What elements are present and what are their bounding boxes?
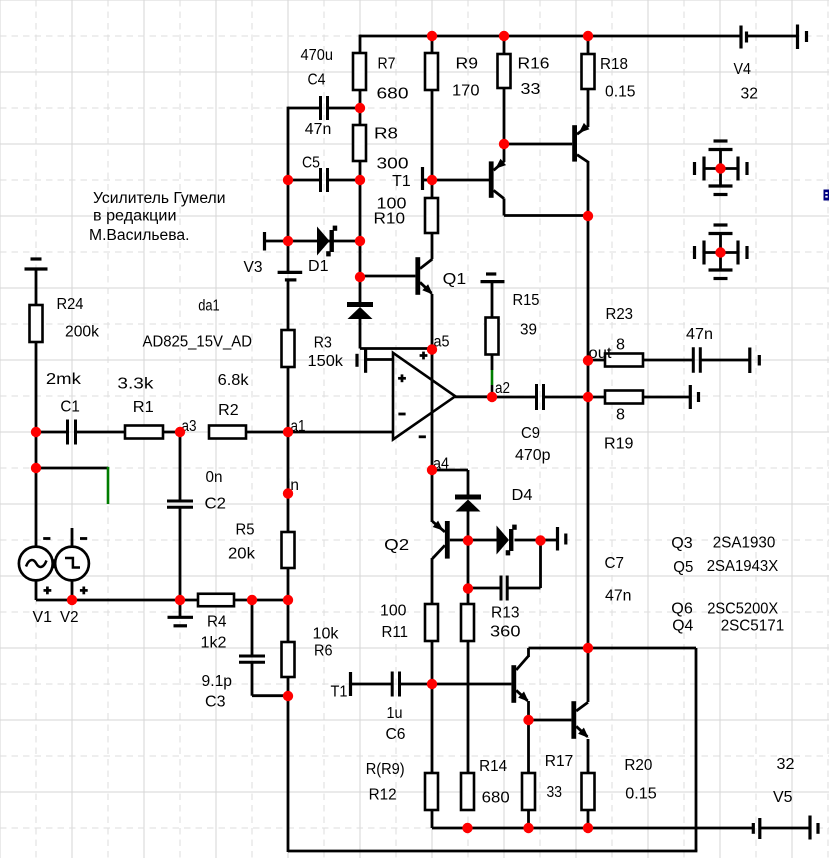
wire node to V1 <box>35 468 38 547</box>
label D1 <box>308 258 329 275</box>
svg-text:2SC5200X: 2SC5200X <box>707 601 779 618</box>
svg-text:D1: D1 <box>308 258 329 275</box>
wire branch to green wire <box>36 467 108 470</box>
svg-text:1k2: 1k2 <box>201 635 227 652</box>
svg-text:C1: C1 <box>60 399 80 416</box>
svg-text:470p: 470p <box>515 447 551 464</box>
wire Q8 base row <box>504 143 572 146</box>
V1 minus marker <box>43 537 50 540</box>
svg-text:32: 32 <box>777 756 795 773</box>
svg-text:T1: T1 <box>331 684 348 701</box>
resistor R19 8 <box>605 391 643 404</box>
wire out row to R23 <box>588 359 605 362</box>
battery V4 cell 1 <box>741 26 747 49</box>
resistor R15 <box>486 318 499 355</box>
wire Q2 base <box>450 539 468 542</box>
svg-text:Q1: Q1 <box>443 271 467 288</box>
value label R20 0.15 <box>624 757 656 803</box>
svg-text:V5: V5 <box>773 789 793 806</box>
wire top supply rail <box>360 35 741 38</box>
svg-text:da1: da1 <box>198 297 220 314</box>
wire op-amp output to a2 <box>455 395 492 398</box>
transistor Q2 pnp mirrored <box>433 521 450 559</box>
V1 plus marker <box>44 587 52 595</box>
battery terminal R19 row <box>690 385 698 409</box>
wire R5 bottom <box>287 568 290 600</box>
terminal at node D1 left <box>263 232 266 251</box>
wire R6 bottom to bottom rail <box>287 696 290 852</box>
svg-text:32: 32 <box>741 86 759 103</box>
svg-text:AD825_15V_AD: AD825_15V_AD <box>143 334 253 351</box>
value label R1 3.3k <box>117 375 153 416</box>
source V2 pulse <box>53 547 89 581</box>
value label R3 150k <box>308 335 344 370</box>
wire R10 to Q1 collector <box>431 233 434 259</box>
diode D2 <box>347 302 373 319</box>
label V5 32 <box>773 756 795 806</box>
svg-text:100: 100 <box>380 603 407 620</box>
junction node R5/R6 <box>283 595 293 605</box>
resistor R18 <box>582 54 595 89</box>
wire R9 bottom to T1 node <box>431 90 434 181</box>
wire V1V2 node to ground node <box>72 599 180 602</box>
wire C3 top lead <box>251 600 254 656</box>
value label C3 9.1p <box>202 673 233 711</box>
wire R2 to a1 <box>246 431 288 434</box>
svg-text:C3: C3 <box>205 694 226 711</box>
svg-text:R4: R4 <box>207 614 227 631</box>
junction node R17 bottom <box>523 823 533 833</box>
wire node down to R17 <box>527 720 530 773</box>
transistor Q8 pnp top-right <box>572 123 589 162</box>
wire ground lead <box>179 600 182 616</box>
junction node out <box>583 355 593 365</box>
transistor type list Q5 <box>673 558 779 576</box>
wire C6 to node <box>400 683 433 686</box>
wire bottom rail <box>288 850 697 853</box>
value label 47n out <box>686 326 713 343</box>
junction node C7/R13 <box>463 583 473 593</box>
value label R12 R(R9) <box>366 761 405 804</box>
node label out <box>589 345 613 362</box>
wire R20 bottom lead <box>587 810 590 828</box>
resistor R12 <box>425 773 438 810</box>
transistor Q4 npn output <box>571 701 588 739</box>
svg-text:0.15: 0.15 <box>625 786 657 803</box>
svg-text:39: 39 <box>520 322 537 339</box>
wire Q7 emitter lead <box>503 144 506 162</box>
svg-text:C5: C5 <box>302 155 320 172</box>
terminal T1 bottom <box>349 672 352 696</box>
wire T1 stub <box>423 179 432 182</box>
label V2 <box>60 609 79 626</box>
battery V3 <box>278 272 303 280</box>
wire Q4 collector lead <box>587 648 590 702</box>
svg-text:R10: R10 <box>374 211 406 228</box>
svg-text:R8: R8 <box>374 126 398 143</box>
power cross battery top <box>695 141 748 195</box>
value label R7 680 <box>377 56 409 103</box>
value label R24 200k <box>57 296 100 341</box>
value label R6 10k <box>313 626 339 660</box>
power cross battery bottom <box>695 225 748 279</box>
junction node Q6 collector rail <box>583 643 593 653</box>
value label C9 470p <box>515 425 551 464</box>
wire Q2 emitter lead <box>431 470 434 522</box>
junction node R20 bottom <box>583 823 593 833</box>
wire a4 row down to D4 <box>467 470 470 495</box>
wire R17 bottom lead <box>527 810 530 828</box>
node label a2 <box>495 380 510 397</box>
wire C7 right lead <box>507 587 540 590</box>
svg-text:R23: R23 <box>606 306 634 323</box>
junction node R16 rail <box>499 31 509 41</box>
value label R16 33 <box>518 56 550 99</box>
source V1 sine <box>19 547 53 581</box>
resistor R17 <box>522 773 535 810</box>
junction node in <box>283 488 293 498</box>
wire a1 row to inverting input <box>288 431 393 434</box>
junction node a1 <box>283 427 293 437</box>
battery terminal D3 row <box>558 527 566 551</box>
svg-text:C9: C9 <box>521 425 540 442</box>
resistor R1 <box>125 426 163 439</box>
wire a1 down to in node <box>287 432 290 532</box>
junction node C5 right <box>355 175 365 185</box>
junction node a3 <box>175 427 185 437</box>
junction node a5 <box>427 344 437 354</box>
wire C9 to out column <box>544 396 589 399</box>
svg-text:9.1p: 9.1p <box>202 673 233 690</box>
label Q1 <box>443 271 467 288</box>
wire T1 bottom stub <box>352 683 393 686</box>
label V4 32 <box>734 61 759 103</box>
wire R9 top lead <box>431 35 434 53</box>
wire out row2 to R19 resistor <box>588 396 605 399</box>
value label R15 39 <box>513 292 540 339</box>
svg-text:200k: 200k <box>65 324 99 341</box>
svg-text:170: 170 <box>452 83 480 100</box>
junction node T1/R9/R10 <box>427 175 437 185</box>
svg-text:R5: R5 <box>236 522 255 539</box>
value label C1 2mk <box>46 371 81 416</box>
junction node V1V2 <box>67 595 77 605</box>
wire D2 bottom bend to a5 <box>360 319 432 349</box>
value label R18 0.15 <box>600 56 636 101</box>
svg-text:R18: R18 <box>600 56 628 73</box>
svg-text:8: 8 <box>616 407 625 424</box>
battery above R24 <box>25 259 48 269</box>
svg-text:33: 33 <box>547 784 563 801</box>
value label C5 47n <box>302 121 331 172</box>
svg-text:47n: 47n <box>605 588 632 605</box>
capacitor C4 <box>321 96 328 120</box>
resistor R5 <box>282 532 295 568</box>
svg-text:1u: 1u <box>387 705 403 722</box>
value label R9 170 <box>452 56 480 100</box>
ui scrollbar fragment <box>824 190 829 201</box>
junction node R7/R9 rail <box>427 31 437 41</box>
wire node down to C7 row <box>539 540 542 588</box>
label T1 top <box>392 173 411 190</box>
resistor R10 <box>425 198 438 233</box>
svg-text:R17: R17 <box>545 753 574 770</box>
svg-text:R13: R13 <box>491 605 520 622</box>
wire C1 to R1 <box>76 431 126 434</box>
svg-text:300: 300 <box>377 156 409 173</box>
transistor Q7 pnp top-left <box>489 159 506 199</box>
ground symbol <box>168 617 194 626</box>
wire R11 bottom to C6 node <box>431 641 434 685</box>
wire Q8 collector / out column <box>587 161 590 649</box>
capacitor 47n out <box>693 347 700 373</box>
svg-text:R12: R12 <box>369 787 397 804</box>
svg-text:V3: V3 <box>244 259 263 276</box>
wire Q1 emitter to a5 <box>431 294 434 350</box>
junction node ground <box>175 595 185 605</box>
svg-text:V1: V1 <box>33 609 53 626</box>
label D4 <box>512 487 533 504</box>
resistor R23 <box>605 354 643 367</box>
resistor R24 <box>30 305 43 342</box>
wire green segment below R15 <box>491 370 494 385</box>
wire R6 bottom to C3 row <box>287 677 290 696</box>
battery terminal at non-inverting input <box>357 348 366 373</box>
op-amp inside minus <box>398 413 405 416</box>
svg-text:R14: R14 <box>479 758 507 775</box>
svg-text:0n: 0n <box>206 469 223 486</box>
node label a1 <box>291 418 306 435</box>
wire V2 top stub <box>71 528 74 547</box>
wire C3 bottom bend <box>252 662 288 695</box>
svg-text:R2: R2 <box>218 402 239 419</box>
junction node a2 <box>487 392 497 402</box>
resistor R7 <box>353 53 366 90</box>
svg-text:V4: V4 <box>734 61 752 78</box>
wire Q6 emitter to node <box>527 701 530 721</box>
resistor R9 <box>425 53 438 90</box>
value label R17 33 <box>545 753 574 801</box>
wire D1 row <box>288 240 360 243</box>
wire C2 bottom to ground node <box>179 507 182 600</box>
svg-text:680: 680 <box>377 86 409 103</box>
resistor R14 <box>461 773 474 810</box>
wire a2 to C9 <box>492 396 537 399</box>
svg-text:C7: C7 <box>605 555 625 572</box>
capacitor C7 <box>501 576 507 601</box>
value label R5 20k <box>228 522 255 563</box>
svg-text:R3: R3 <box>314 335 332 352</box>
svg-text:T1: T1 <box>392 173 411 190</box>
svg-text:R16: R16 <box>518 56 550 73</box>
junction node R14 bottom <box>462 823 472 833</box>
op-amp label AD825_15V_AD <box>143 334 253 351</box>
wire V3 to R3 <box>287 280 290 330</box>
wire green dangling segment <box>107 467 110 504</box>
junction node C3/R6 bottom <box>283 691 293 701</box>
op-amp inside plus <box>398 374 406 382</box>
svg-text:2SA1943X: 2SA1943X <box>707 558 779 575</box>
node label a4 <box>433 456 449 473</box>
wire R24 to C1 node <box>35 342 38 433</box>
wire 47n cap to battery terminal <box>701 359 749 362</box>
wire Q6 collector rail <box>529 647 697 650</box>
diode D4 <box>455 495 481 512</box>
svg-text:360: 360 <box>490 624 521 641</box>
wire node to battery terminal D3 <box>541 539 557 542</box>
terminal T1 top <box>421 167 424 190</box>
wire R18 top lead <box>587 35 590 54</box>
svg-text:C6: C6 <box>386 726 406 743</box>
svg-text:C4: C4 <box>308 72 326 89</box>
wire Q7 collector to out column <box>504 214 588 217</box>
label Q2 <box>384 537 409 554</box>
svg-text:D4: D4 <box>512 487 533 504</box>
transistor type list Q4 <box>672 618 784 635</box>
junction node R4/C3 <box>247 595 257 605</box>
resistor R20 <box>582 773 595 810</box>
wire a3 down to C2 <box>179 432 182 501</box>
value label C4 470u <box>301 47 334 89</box>
wire Q7 collector lead <box>503 199 506 216</box>
wire terminal stub to node D1 <box>265 240 289 243</box>
resistor R16 <box>498 54 511 88</box>
svg-text:R7: R7 <box>378 56 396 73</box>
wire op-amp supply column a5-a4 <box>431 349 434 471</box>
wire green to a2 <box>491 385 494 397</box>
svg-text:2mk: 2mk <box>46 371 81 388</box>
wire R16 top lead <box>503 35 506 54</box>
wire Q7 base <box>432 179 489 182</box>
transistor type list Q6 <box>671 601 779 618</box>
wire R12 bottom bend <box>432 810 753 828</box>
svg-text:Q3: Q3 <box>671 535 692 552</box>
value label R11 100 <box>380 603 408 642</box>
svg-text:0.15: 0.15 <box>605 84 636 101</box>
wire ground node to R4 <box>180 599 198 602</box>
svg-text:150k: 150k <box>308 353 344 370</box>
wire R5 node to R6 <box>287 600 290 642</box>
junction node Q2 base/D3/D4 <box>463 535 473 545</box>
svg-text:C2: C2 <box>205 496 227 513</box>
wire R7-R8 link <box>359 90 362 125</box>
value label R19 8 <box>604 407 634 453</box>
wire C6 node to Q6 base <box>432 683 511 686</box>
wire C3 node to R5 node <box>252 599 288 602</box>
op-amp label da1 <box>198 297 220 314</box>
value label R2 6.8k <box>218 372 249 419</box>
wire V2 bottom <box>71 580 74 601</box>
wire Q2 collector to R11 <box>431 558 434 604</box>
battery V5 cell 2 <box>810 816 818 840</box>
junction node D3 cathode <box>535 535 545 545</box>
wire Q2 node down to C7 node <box>467 540 470 588</box>
capacitor C3 <box>239 656 265 662</box>
junction node V1 branch <box>31 463 41 473</box>
svg-text:470u: 470u <box>301 47 334 64</box>
svg-text:R6: R6 <box>314 643 333 660</box>
svg-text:10k: 10k <box>313 626 339 643</box>
svg-text:R1: R1 <box>133 399 154 416</box>
resistor R6 <box>282 642 295 677</box>
svg-text:8: 8 <box>616 337 625 354</box>
value label R23 8 <box>606 306 634 354</box>
capacitor C2 <box>167 501 193 507</box>
wire R15 bottom black part <box>491 355 494 371</box>
battery V4 cell 2 <box>798 25 807 50</box>
value label C7 47n <box>605 555 632 605</box>
wire R16 bottom to node <box>503 88 506 145</box>
title text <box>89 190 226 244</box>
node label a3 <box>182 418 197 435</box>
op-amp supply plus marker <box>420 352 428 360</box>
battery V5 cell 1 <box>753 818 760 839</box>
label V1 <box>33 609 53 626</box>
resistor R2 <box>209 426 246 439</box>
svg-text:a2: a2 <box>495 380 510 397</box>
value label C2 0n <box>205 469 227 513</box>
battery terminal 47n row <box>750 348 760 374</box>
wire R3 to a1 <box>287 367 290 433</box>
svg-text:6.8k: 6.8k <box>218 372 249 389</box>
V2 plus marker <box>80 587 88 595</box>
svg-text:R20: R20 <box>624 757 652 774</box>
op-amp supply minus marker <box>419 435 426 438</box>
wire D4 to Q2 base node <box>467 512 470 542</box>
label T1 bottom <box>331 684 348 701</box>
junction node R16/Q7/Q8 <box>499 139 509 149</box>
junction node Q7 collector out column <box>583 211 593 221</box>
svg-text:R19: R19 <box>604 436 634 453</box>
svg-text:М.Васильева.: М.Васильева. <box>89 227 190 244</box>
svg-text:Q2: Q2 <box>384 537 409 554</box>
svg-text:R24: R24 <box>57 296 84 313</box>
svg-text:R(R9): R(R9) <box>366 761 405 778</box>
label V3 <box>244 259 263 276</box>
resistor R13 <box>461 604 474 641</box>
junction node R19 row <box>583 392 593 402</box>
wire V3 top lead <box>287 241 290 272</box>
node label a5 <box>434 334 450 351</box>
svg-text:33: 33 <box>521 81 541 98</box>
resistor R11 <box>425 604 438 641</box>
junction node R7-R8 C4 <box>355 103 365 113</box>
V2 minus marker <box>80 537 87 540</box>
junction node Q1 base <box>355 272 365 282</box>
wire column left of C4/C5 <box>287 107 290 242</box>
svg-text:в редакции: в редакции <box>93 208 177 225</box>
transistor type list Q3 <box>671 535 775 553</box>
junction node D1 left <box>283 236 293 246</box>
wire R7 top lead <box>359 35 362 53</box>
transistor Q1 npn <box>415 257 432 295</box>
svg-text:R15: R15 <box>513 292 540 309</box>
wire D3 anode lead <box>468 539 497 542</box>
svg-text:2SA1930: 2SA1930 <box>713 535 776 552</box>
wire C4 row <box>288 107 360 110</box>
wire R4 to C3 node <box>234 599 252 602</box>
junction node D1 right <box>355 236 365 246</box>
capacitor C1 <box>68 420 76 445</box>
value label R14 680 <box>479 758 510 806</box>
resistor R8 <box>353 125 366 161</box>
junction node C1 left <box>31 427 41 437</box>
capacitor C5 <box>321 168 328 192</box>
node label in <box>287 477 299 494</box>
wire R23 to 47n cap <box>643 359 693 362</box>
transistor Q6 npn driver <box>511 656 528 703</box>
wire C5 row <box>288 179 360 182</box>
